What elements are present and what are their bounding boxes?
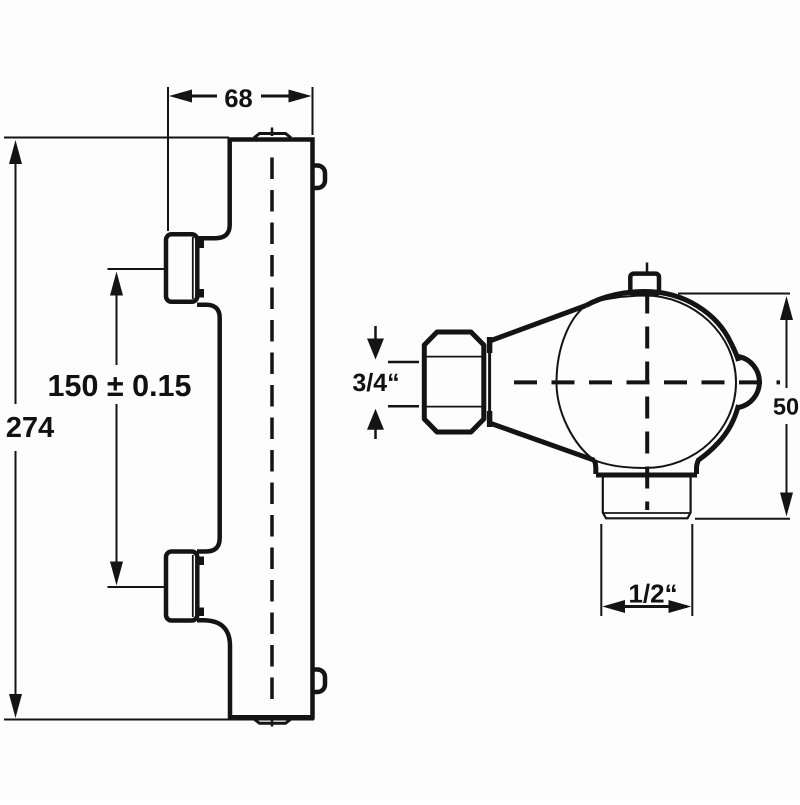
horizontal centerline [514,380,780,384]
arrows 3/4 [374,326,377,341]
bracket bottom [166,552,197,621]
outlet cylinder 1/2" [603,477,691,518]
inner thin circle (cartridge) [557,296,737,469]
dimension line 1/2 with arrows [607,605,687,608]
extension line bottom (274) [4,719,314,721]
extension line top (274) [4,137,229,139]
cone slants [491,306,586,341]
texts right view [774,398,798,415]
right tab top [313,166,325,189]
centre tick bottom [271,719,274,727]
body middle narrow section [197,305,220,552]
extension lines 50 [678,293,790,295]
cap seam top [254,134,291,138]
vertical centerline [645,292,649,511]
cap seam bottom [254,719,291,723]
dimension 68 extension lines [167,87,169,231]
tick above knob [646,263,649,273]
knob on top [630,274,659,294]
dome bottom edge [596,473,697,478]
left skirt [595,460,596,474]
dimension line 50 [786,300,788,388]
centre tick top [271,128,274,137]
extension lines 3/4 [388,361,419,364]
right tab bottom [313,670,325,693]
texts left view [7,417,54,437]
dimension line 274 [15,146,17,404]
hex nut (side view) [424,332,484,432]
centerline dashed [270,158,274,704]
thick outer dome [586,292,739,362]
bracket top (S-union escutcheon) [166,234,197,301]
extension lines 1/2 [600,524,602,616]
body outline (outer) [197,140,313,718]
sleeve between nut and cone [488,337,491,427]
right bump [739,357,760,408]
dimension line 150 [116,292,118,365]
dimension line 68 [186,95,217,98]
dimension 150 extension lines [108,268,166,270]
